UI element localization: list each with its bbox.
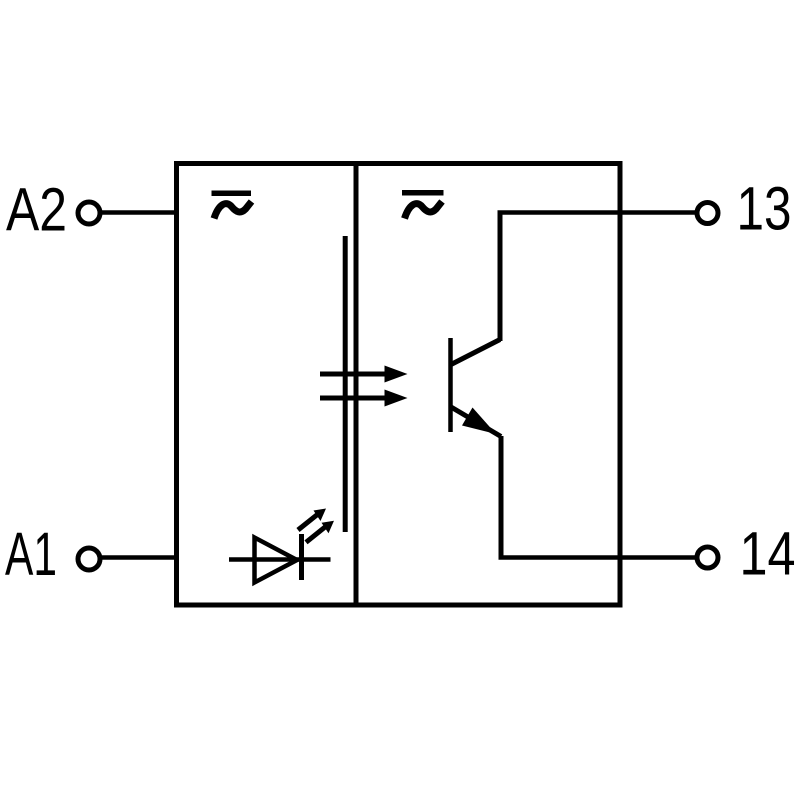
wire emitter vertical — [499, 436, 504, 558]
phototransistor Q1 base bar — [448, 338, 453, 432]
wire A1 lead — [102, 555, 179, 560]
svg-text:A1: A1 — [5, 520, 57, 588]
LED D1 emission arrow 1 — [298, 509, 326, 531]
phototransistor Q1 collector diagonal — [451, 340, 500, 365]
wire A2 lead — [102, 210, 179, 215]
terminal A2 — [78, 202, 100, 224]
phototransistor Q1 emitter diagonal with arrowhead — [451, 407, 501, 437]
wire collector to terminal 13 — [498, 210, 696, 215]
label A2 — [6, 176, 67, 244]
svg-text:13: 13 — [737, 175, 792, 243]
wire emitter to terminal 14 — [499, 555, 696, 560]
LED D1 triangle — [255, 538, 298, 583]
LED D1 cathode bar — [299, 534, 304, 580]
AC symbol output half — [402, 190, 444, 219]
label A1 — [5, 520, 57, 588]
terminal 13 — [697, 203, 718, 224]
light coupling arrow upper — [320, 366, 408, 383]
label 14 — [740, 520, 796, 588]
terminal 14 — [697, 547, 718, 568]
LED D1 emission arrow 2 — [306, 521, 334, 543]
label 13 — [737, 175, 792, 243]
terminal A1 — [78, 548, 100, 570]
AC symbol input half — [212, 191, 252, 219]
light coupling arrow lower — [320, 390, 408, 407]
isolation barrier line — [343, 236, 348, 532]
divider wall between input and output halves — [354, 166, 359, 603]
wire collector vertical — [498, 213, 503, 342]
svg-text:14: 14 — [740, 520, 796, 588]
svg-text:A2: A2 — [6, 176, 67, 244]
optocoupler body outline U1 — [177, 164, 621, 606]
LED D1 anode wire — [229, 557, 331, 562]
